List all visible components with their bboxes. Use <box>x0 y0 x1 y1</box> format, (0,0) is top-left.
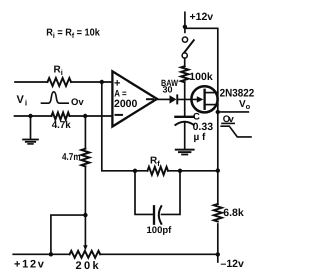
FET source lead <box>205 104 218 106</box>
wire top corner to rail <box>185 28 218 204</box>
switch S1 blade <box>184 40 194 53</box>
label 4.7m <box>62 152 81 163</box>
svg-text:+12v: +12v <box>14 259 46 271</box>
label Rf <box>150 156 160 169</box>
node Vo junction <box>216 110 220 114</box>
svg-text:6.8k: 6.8k <box>223 207 244 219</box>
label 100pf <box>147 225 173 236</box>
wire cap to ground <box>184 123 186 149</box>
op-amp output minus mark <box>147 98 153 100</box>
svg-text:4.7k: 4.7k <box>52 120 71 131</box>
svg-text:2000: 2000 <box>114 98 138 110</box>
wire rail below 6.8k to -12v <box>217 224 219 262</box>
FET channel bar <box>203 90 205 109</box>
svg-text:–12v: –12v <box>221 258 245 270</box>
switch S1 bottom contact <box>182 53 187 58</box>
resistor R1 (Ri) <box>48 78 72 86</box>
wire from minus node down to 4.7m <box>84 116 86 149</box>
node +12v junction <box>183 25 187 29</box>
label +12v (bottom) <box>14 259 46 271</box>
wire top input (Vi to op-amp + input) <box>15 81 113 83</box>
wire +12v stub (top) <box>184 12 186 26</box>
label -12v <box>221 258 245 270</box>
capacitor C1 (0.33uf) <box>175 116 193 118</box>
node wiper junction <box>83 213 87 217</box>
ground (left) <box>22 139 39 145</box>
label 6.8k <box>223 207 244 219</box>
wire 100k down through gate node to cap <box>184 82 186 116</box>
wire Rf net <box>135 170 218 172</box>
capacitor C2 (100pf) <box>153 206 155 223</box>
wire op-amp output to diode <box>157 98 170 100</box>
diode CR1 (BAW 30) <box>170 95 177 103</box>
switch S1 top contact <box>182 37 187 42</box>
label Ov (output) <box>223 114 235 125</box>
svg-text:µ f: µ f <box>194 132 207 143</box>
resistor R6 (6.8k) vertical <box>214 204 222 222</box>
resistor R2 (4.7k) <box>52 113 70 120</box>
label 2N3822 <box>220 87 255 99</box>
wire feedback vertical and to Rf <box>102 82 135 171</box>
svg-text:20k: 20k <box>76 260 102 272</box>
svg-text:100k: 100k <box>189 71 213 83</box>
node rail-Rf junction <box>216 168 220 172</box>
svg-text:4.7m: 4.7m <box>62 152 81 163</box>
annotation output waveform <box>221 126 251 137</box>
node bottom-right junction <box>216 252 220 256</box>
op-amp U1 <box>112 71 157 126</box>
wire ground drop <box>30 116 32 139</box>
svg-text:100pf: 100pf <box>147 225 173 236</box>
op-amp inverting input minus mark <box>116 114 123 116</box>
label BAW 30 <box>161 78 178 95</box>
resistor R5 (100k) vertical <box>181 66 188 82</box>
svg-text:+12v: +12v <box>190 11 214 23</box>
svg-text:Ov: Ov <box>71 97 84 108</box>
wire lower input (to op-amp - input) <box>15 115 113 117</box>
FET drain lead <box>205 92 218 94</box>
wire diode to FET gate <box>178 98 197 100</box>
label 20k <box>76 260 102 272</box>
svg-text:2N3822: 2N3822 <box>220 87 255 99</box>
wire wiper arrow stem <box>84 215 86 246</box>
wire jog to +12v rail <box>51 215 86 254</box>
label C 0.33 uf <box>193 111 214 143</box>
node junction top wire to feedback <box>100 80 104 84</box>
svg-text:Ri = Rf = 10k: Ri = Rf = 10k <box>46 28 100 41</box>
wire 4.7m to wiper node <box>84 166 86 215</box>
node Rf right <box>178 169 182 173</box>
svg-text:30: 30 <box>163 84 173 94</box>
node junction on bottom rail <box>49 252 53 256</box>
wire Vo output <box>218 111 249 113</box>
wire bottom rail <box>13 253 218 255</box>
label Ov (input baseline) <box>71 97 84 108</box>
resistor R3 (4.7m) vertical <box>81 149 89 167</box>
label 4.7k <box>52 120 71 131</box>
label 100k <box>189 71 213 83</box>
transistor Q1 (2N3822 FET) <box>191 86 217 112</box>
node junction lower-left <box>28 114 32 118</box>
title note Ri = Rf = 10k <box>46 28 100 41</box>
label Vi <box>17 94 28 108</box>
node junction minus-input to divider <box>83 114 87 118</box>
wire 100pf branch <box>135 171 180 215</box>
potentiometer R7 (20k) <box>70 251 101 258</box>
wire switch to 100k <box>184 58 186 66</box>
label Vo <box>239 99 251 111</box>
label Ri <box>54 65 63 78</box>
wire junction to switch <box>184 27 186 32</box>
node Rf left <box>133 169 137 173</box>
wiper arrowhead <box>83 245 87 250</box>
label +12v (top) <box>190 11 214 23</box>
ground (right) <box>175 149 195 156</box>
resistor R4 (Rf) <box>148 167 168 175</box>
annotation input pulse waveform <box>42 92 69 103</box>
FET gate arrowhead <box>197 96 204 102</box>
annotation Ov underline <box>222 122 234 124</box>
